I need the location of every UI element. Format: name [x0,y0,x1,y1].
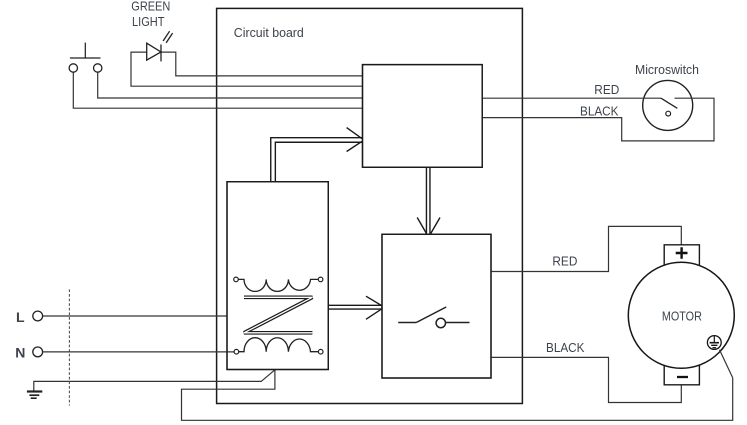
svg-text:GREEN: GREEN [131,0,170,13]
svg-text:N: N [15,345,25,361]
svg-text:Microswitch: Microswitch [635,62,699,77]
svg-text:LIGHT: LIGHT [132,15,165,29]
svg-text:Circuit board: Circuit board [234,25,304,40]
svg-text:BLACK: BLACK [546,341,585,355]
svg-text:BLACK: BLACK [580,104,619,118]
svg-text:L: L [16,309,25,325]
svg-text:RED: RED [594,83,619,97]
svg-text:RED: RED [552,255,577,269]
svg-text:MOTOR: MOTOR [662,309,702,324]
